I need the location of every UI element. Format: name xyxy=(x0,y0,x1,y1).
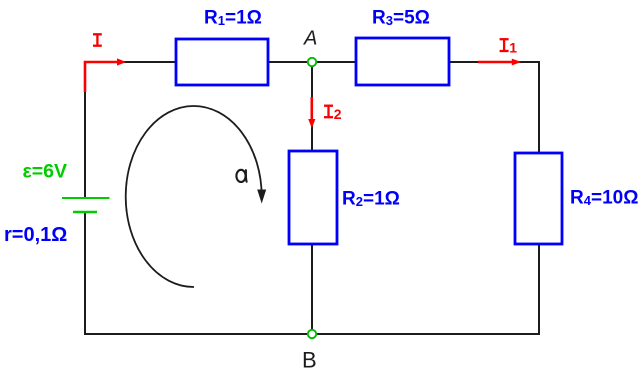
wire: R1 right to node A xyxy=(268,61,312,63)
label R2=1Ω xyxy=(342,189,400,210)
current arrow I1 (red, right of R3) xyxy=(478,59,521,66)
label I2 xyxy=(324,106,342,122)
wire: R3 right to top-right corner xyxy=(449,61,539,63)
label R4=10Ω xyxy=(570,188,638,209)
node B xyxy=(308,330,316,338)
svg-text:R3=5Ω: R3=5Ω xyxy=(372,8,430,29)
wire: bottom horizontal xyxy=(84,333,540,335)
wire: left vertical lower (battery - plate to bottom) xyxy=(84,212,86,335)
battery plate + (long, green) xyxy=(62,197,110,199)
wire: node A to R3 left xyxy=(312,61,356,63)
battery plate - (short, green) xyxy=(73,211,97,213)
label R3=5Ω xyxy=(372,8,430,29)
svg-text:2: 2 xyxy=(334,106,342,122)
label I xyxy=(93,34,102,45)
current arrow I2 (red, below node A) xyxy=(308,97,315,128)
svg-text:R1=1Ω: R1=1Ω xyxy=(204,8,262,29)
resistor R2 xyxy=(289,151,337,244)
svg-text:A: A xyxy=(303,27,317,49)
label R1=1Ω xyxy=(204,8,262,29)
wire: right vertical lower (R4 bottom to bottom-right corner) xyxy=(538,244,540,334)
node A xyxy=(308,58,316,66)
wire: middle vertical upper (node A to R2 top) xyxy=(311,62,313,151)
label internal resistance r=0,1Ω xyxy=(4,224,67,246)
resistor R1 xyxy=(176,39,268,85)
svg-text:R2=1Ω: R2=1Ω xyxy=(342,189,400,210)
wire: middle vertical lower (R2 bottom to node B) xyxy=(311,244,313,334)
label a (loop name) xyxy=(236,170,246,182)
label B xyxy=(302,347,317,372)
label EMF e=6V xyxy=(23,161,68,183)
label A xyxy=(303,27,317,49)
resistor R4 xyxy=(515,153,562,244)
loop direction arc (clockwise ellipse arc) xyxy=(126,106,266,287)
svg-text:1: 1 xyxy=(509,40,517,56)
resistor R3 xyxy=(356,38,449,85)
label I1 xyxy=(500,39,518,55)
wire: left vertical upper (corner to battery + plate) xyxy=(84,61,86,198)
wire: right vertical upper (corner to R4 top) xyxy=(538,61,540,153)
svg-text:r=0,1Ω: r=0,1Ω xyxy=(4,224,67,246)
svg-text:R4=10Ω: R4=10Ω xyxy=(570,188,638,209)
svg-text:B: B xyxy=(302,347,317,372)
svg-text:ε=6V: ε=6V xyxy=(23,161,68,183)
wire: top-left horizontal (battery top to R1) xyxy=(85,61,176,63)
current arrow I (red, at top-left corner) xyxy=(85,58,126,92)
